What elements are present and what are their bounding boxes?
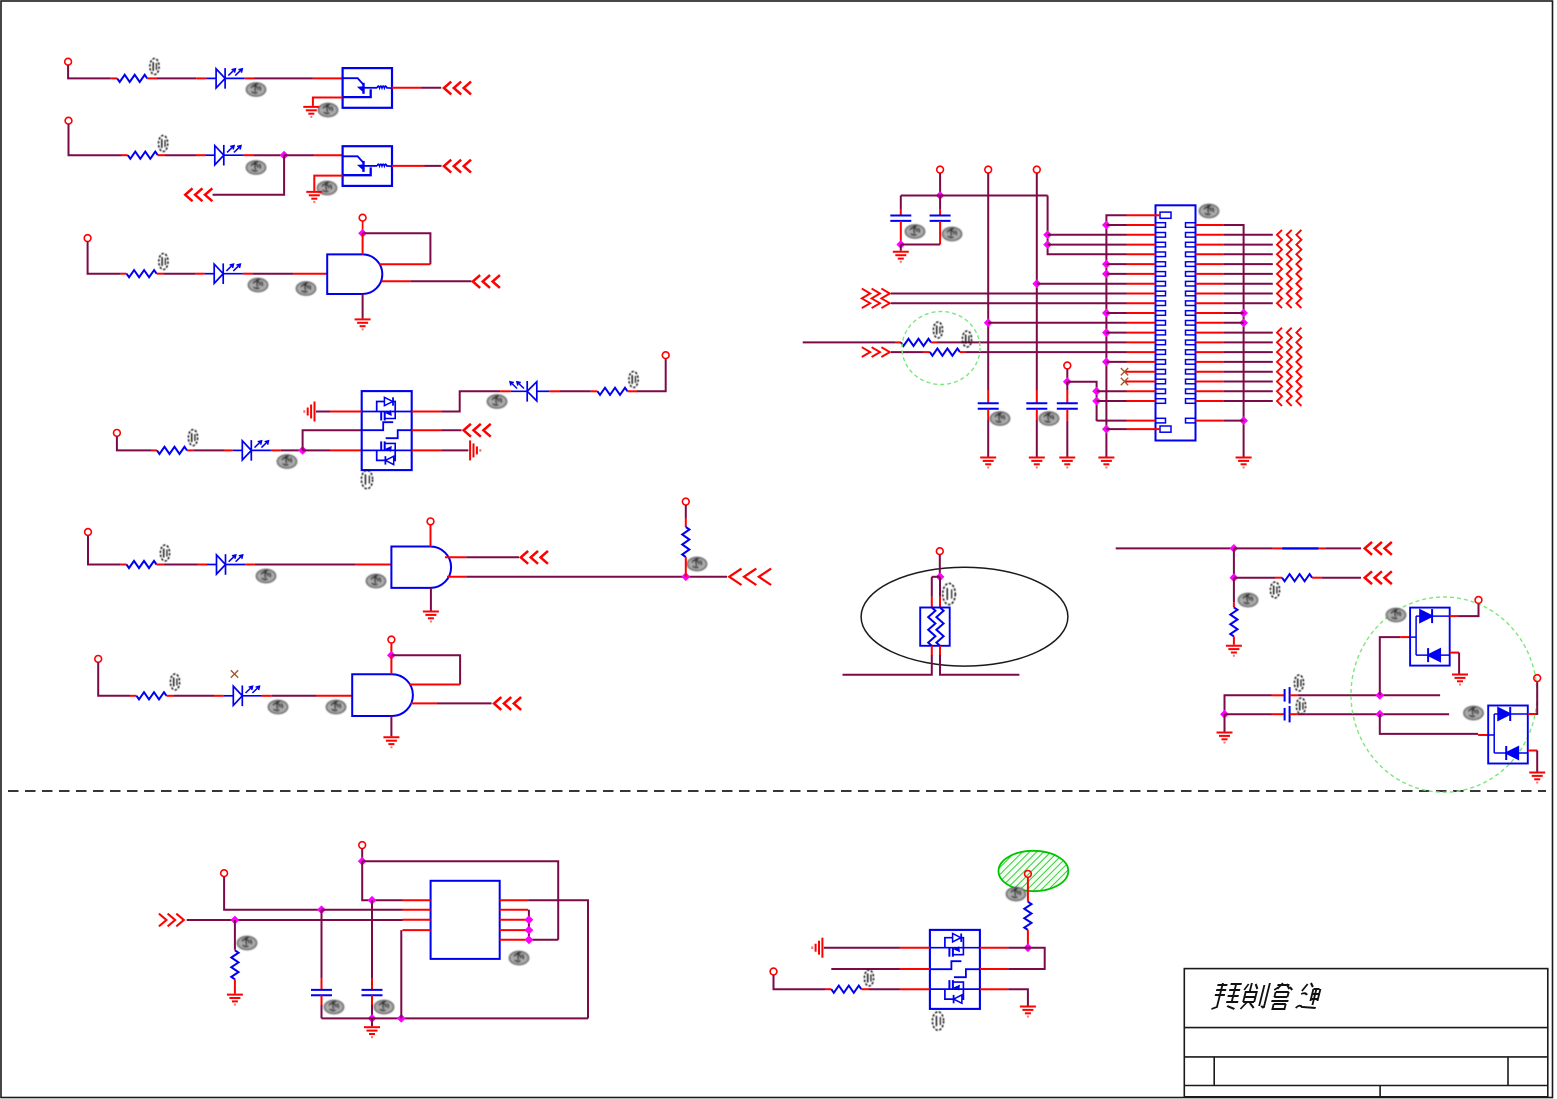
wire bbox=[174, 695, 214, 697]
pin lead bbox=[121, 273, 127, 275]
wire bbox=[157, 77, 196, 79]
resistor pack RP1 body bbox=[920, 608, 950, 646]
LED D2 bbox=[205, 145, 243, 166]
pin lead bbox=[549, 390, 560, 392]
pin lead bbox=[1036, 409, 1038, 420]
junction node bbox=[387, 651, 396, 660]
wire right vertical bus bbox=[1224, 225, 1244, 457]
junction node bbox=[936, 572, 945, 581]
dual diode pack D8 bbox=[1410, 608, 1450, 666]
wire left vertical bus bbox=[1106, 215, 1126, 456]
dual MOSFET Q2 bbox=[930, 930, 980, 1009]
wire to off-page bbox=[411, 280, 472, 282]
pin lead bbox=[245, 564, 255, 566]
off-page zigzag arrows group1 bbox=[1277, 230, 1301, 308]
pin lead bbox=[1233, 636, 1235, 644]
wire C5 net bbox=[1067, 382, 1096, 421]
pin lead bbox=[1066, 390, 1068, 403]
pin lead bbox=[262, 695, 272, 697]
power terminal P13 bbox=[985, 166, 992, 173]
wire row k17 bbox=[1097, 390, 1127, 392]
value label R4 bbox=[188, 430, 197, 446]
wire bbox=[194, 449, 224, 451]
wire cap net top bbox=[1225, 695, 1272, 714]
ground bbox=[383, 737, 399, 747]
power terminal P4 bbox=[359, 214, 366, 221]
junction node bbox=[1043, 240, 1052, 249]
ground bbox=[980, 458, 996, 468]
pin lead bbox=[1027, 877, 1029, 901]
IC right pin leads bbox=[500, 900, 529, 940]
designator C2 bbox=[942, 227, 961, 240]
junction node bbox=[1092, 397, 1101, 406]
wire row k2 bbox=[1048, 244, 1127, 246]
pin lead bbox=[157, 564, 165, 566]
wire bbox=[253, 273, 294, 275]
pin lead bbox=[293, 273, 327, 275]
wire to off-page bbox=[466, 576, 727, 578]
pin lead bbox=[987, 409, 989, 420]
ground bbox=[364, 1027, 380, 1037]
wire bbox=[1233, 578, 1235, 603]
wire bbox=[371, 1005, 373, 1018]
pin lead bbox=[243, 154, 253, 156]
wire bbox=[303, 449, 330, 451]
ground bbox=[1452, 675, 1468, 685]
pin lead bbox=[628, 390, 638, 392]
IC left pin leads bbox=[403, 900, 431, 930]
ground bbox=[893, 252, 909, 262]
power terminal P1 bbox=[65, 58, 72, 65]
feedback loop wire bbox=[391, 655, 460, 684]
pin lead bbox=[412, 449, 442, 451]
pin lead bbox=[923, 351, 930, 353]
designator R7 bbox=[687, 557, 706, 570]
wire bbox=[900, 245, 902, 251]
designator D7 bbox=[268, 700, 287, 713]
ground bbox=[1029, 458, 1045, 468]
junction node bbox=[1043, 230, 1052, 239]
connector CN1 pin contacts bbox=[1156, 212, 1196, 432]
wire to pack2 bbox=[1380, 714, 1478, 734]
highlight ellipse (black) bbox=[861, 567, 1068, 666]
junction node bbox=[1102, 260, 1111, 269]
resistor R10 bbox=[930, 349, 960, 356]
ground pin wire bbox=[430, 588, 432, 611]
designator R14 bbox=[1006, 887, 1025, 900]
wire to junction bbox=[253, 154, 284, 156]
pin lead bbox=[321, 995, 323, 1005]
power pin bbox=[430, 525, 432, 547]
pin lead bbox=[825, 988, 831, 990]
pin lead bbox=[130, 695, 137, 697]
capacitor C7 bbox=[1285, 706, 1290, 722]
pin lead bbox=[234, 949, 236, 950]
pin lead bbox=[980, 988, 1008, 990]
capacitor C2 bbox=[930, 216, 951, 221]
wire branch bbox=[932, 576, 940, 578]
junction node bbox=[1102, 328, 1111, 337]
LED D5 bbox=[510, 381, 549, 402]
capacitor C4 bbox=[1026, 403, 1047, 408]
wire bbox=[284, 154, 314, 156]
pin lead bbox=[939, 597, 941, 608]
power terminal P5 bbox=[114, 430, 121, 437]
designator U2 bbox=[317, 181, 336, 194]
LED D3 bbox=[205, 263, 243, 284]
capacitor C1 bbox=[890, 216, 911, 221]
pin lead bbox=[371, 978, 373, 990]
ground (rotated) bbox=[812, 938, 822, 958]
resistor R7 bbox=[682, 527, 689, 557]
no-connect X k15 bbox=[1121, 368, 1128, 375]
off-page connector <<< row6 bbox=[494, 698, 520, 709]
wire bbox=[272, 695, 316, 697]
power terminal P17 bbox=[1475, 597, 1482, 604]
junction node bbox=[1102, 425, 1111, 434]
pin lead bbox=[1272, 694, 1285, 696]
junction node bbox=[1063, 377, 1072, 386]
wire row k7 bbox=[891, 293, 1127, 295]
pin lead bbox=[1275, 577, 1282, 579]
ground bbox=[423, 612, 439, 622]
designator D8 bbox=[1386, 608, 1405, 621]
designator D9 bbox=[1464, 706, 1483, 719]
designator Q2 bbox=[932, 1012, 943, 1030]
designator U3 bbox=[296, 282, 315, 295]
wire bbox=[164, 564, 198, 566]
ferrite bead FB1 bbox=[1282, 547, 1319, 549]
junction node bbox=[1220, 710, 1229, 719]
designator D3 bbox=[248, 278, 267, 291]
connector CN1 body bbox=[1156, 205, 1196, 440]
wire from P3 bbox=[88, 242, 121, 274]
power terminal P10 bbox=[95, 656, 102, 663]
power terminal P19 bbox=[221, 870, 228, 877]
wire row L4 to rail bbox=[400, 930, 402, 1018]
no-connect X k16 bbox=[1121, 378, 1128, 385]
LED D1 bbox=[207, 68, 245, 89]
pin lead bbox=[931, 597, 933, 608]
pin lead bbox=[313, 77, 343, 79]
pin lead bbox=[939, 221, 941, 245]
off-page connector <<< row4 bbox=[464, 425, 490, 436]
junction node bbox=[358, 229, 367, 238]
junction node bbox=[936, 191, 945, 200]
ground bbox=[303, 107, 319, 117]
junction node bbox=[1024, 943, 1033, 952]
value label R1 bbox=[150, 59, 159, 75]
pin lead bbox=[1400, 636, 1410, 638]
connector left pin leads bbox=[1127, 215, 1161, 429]
power terminal P20 bbox=[359, 842, 366, 849]
AND gate U5 bbox=[352, 674, 413, 716]
wire ground rail bbox=[322, 1017, 589, 1019]
off-page connector <<< net1 bbox=[1365, 543, 1391, 554]
no-connect lead k15 bbox=[1125, 371, 1127, 373]
off-page connector <<< row3 bbox=[473, 276, 499, 287]
value label R15 bbox=[864, 970, 873, 986]
power loop wire bbox=[362, 861, 558, 940]
ground bbox=[1020, 1007, 1036, 1017]
wire row k13b bbox=[966, 351, 1127, 353]
resistor R12 bbox=[1230, 607, 1237, 636]
wire row k8 bbox=[891, 302, 1127, 304]
wire bbox=[1066, 421, 1068, 457]
pin lead bbox=[198, 564, 208, 566]
value label R10 bbox=[962, 331, 971, 347]
ground (rotated) bbox=[470, 440, 480, 460]
pin lead bbox=[1450, 652, 1459, 654]
pin lead bbox=[187, 449, 194, 451]
pin lead bbox=[685, 557, 687, 577]
wire from P19 bbox=[224, 877, 321, 910]
LED D6 bbox=[207, 554, 245, 575]
branch wire bbox=[213, 155, 285, 195]
pin lead bbox=[234, 979, 236, 993]
junction node bbox=[525, 935, 534, 944]
junction node bbox=[1102, 309, 1111, 318]
wire row k18 bbox=[1097, 400, 1127, 402]
company name 緯創資通 (drawn strokes) bbox=[1211, 983, 1321, 1009]
wire from >>> bbox=[187, 919, 403, 921]
wire bbox=[1326, 547, 1361, 549]
junction node bbox=[525, 926, 534, 935]
power pin bbox=[390, 655, 392, 674]
resistor R11 bbox=[1282, 574, 1312, 581]
designator CN1 bbox=[1199, 204, 1218, 217]
junction node bbox=[368, 1014, 377, 1023]
designator U5 bbox=[326, 700, 345, 713]
junction node bbox=[298, 446, 307, 455]
resistor RP1b bbox=[936, 608, 943, 646]
wire to off-page bbox=[466, 556, 519, 558]
wires bus-B rows bbox=[1106, 225, 1126, 362]
resistor RP1a bbox=[928, 608, 935, 646]
power terminal P11 bbox=[388, 636, 395, 643]
junction node bbox=[280, 151, 289, 160]
pin lead bbox=[122, 154, 128, 156]
ground bbox=[1217, 733, 1233, 743]
pin lead bbox=[960, 351, 966, 353]
pin lead bbox=[1066, 409, 1068, 421]
pin lead bbox=[900, 968, 930, 970]
pin lead bbox=[195, 273, 205, 275]
power terminal P16 bbox=[936, 548, 943, 555]
wire to terminal bbox=[1535, 682, 1537, 715]
designator D4 bbox=[277, 455, 296, 468]
capacitor C3 bbox=[978, 403, 999, 408]
wire from P7 bbox=[88, 535, 121, 564]
wire bottom rail bbox=[901, 244, 940, 246]
value label R5 bbox=[629, 372, 638, 388]
pin lead bbox=[224, 449, 233, 451]
power terminal P2 bbox=[65, 117, 72, 124]
power lead bbox=[390, 643, 392, 655]
wire bbox=[234, 920, 236, 949]
off-page connector <<< net2 bbox=[1365, 572, 1391, 583]
pin lead bbox=[447, 576, 466, 578]
pin lead bbox=[1478, 734, 1488, 736]
designator D1 bbox=[246, 83, 265, 96]
wire bbox=[685, 505, 687, 518]
wire net1 bbox=[1116, 547, 1234, 549]
wire to ground bbox=[1536, 751, 1538, 772]
wire bbox=[1234, 547, 1273, 549]
wire from P5 bbox=[117, 436, 151, 450]
wire bbox=[1225, 713, 1272, 715]
pin lead bbox=[900, 221, 902, 245]
designator Q1 bbox=[361, 470, 372, 488]
junction node bbox=[1375, 691, 1384, 700]
pin lead bbox=[392, 165, 425, 167]
wire row L2 bbox=[322, 909, 403, 911]
resistor R1 bbox=[117, 75, 147, 82]
green highlight ellipse bbox=[902, 312, 980, 385]
designator U1 bbox=[318, 103, 337, 116]
off-page zigzag arrows >> (2 rows) bbox=[862, 289, 890, 309]
pin lead bbox=[412, 411, 442, 413]
pin lead bbox=[382, 280, 411, 282]
pin lead bbox=[1036, 390, 1038, 403]
green hatched highlight ellipse bbox=[999, 851, 1069, 891]
off-page connector <<< row2 bbox=[444, 161, 470, 172]
pin lead bbox=[157, 273, 164, 275]
wire top rail bbox=[901, 195, 1048, 197]
pin lead bbox=[380, 263, 431, 265]
wire to off-page bbox=[437, 702, 492, 704]
wire cap C8 lead bbox=[321, 910, 323, 979]
optocoupler U2 bbox=[343, 146, 392, 186]
wire bbox=[987, 420, 989, 457]
junction node bbox=[1239, 309, 1248, 318]
pin lead bbox=[167, 695, 175, 697]
junction node bbox=[681, 572, 690, 581]
pin lead bbox=[330, 411, 362, 413]
pin lead bbox=[245, 77, 255, 79]
off-page connector <<< row5a bbox=[521, 552, 547, 563]
pin lead bbox=[243, 273, 253, 275]
pin lead to ground bbox=[314, 176, 342, 191]
pin lead bbox=[939, 209, 941, 216]
junction node bbox=[1239, 416, 1248, 425]
pin lead bbox=[1312, 577, 1322, 579]
wire from P22 bbox=[774, 975, 826, 989]
power lead bbox=[362, 221, 364, 233]
junction node bbox=[317, 905, 326, 914]
designator C4 bbox=[1039, 412, 1058, 425]
ground bbox=[1236, 458, 1252, 468]
wire bbox=[1233, 548, 1235, 577]
wires bus-C rows bbox=[1224, 313, 1244, 421]
wire bbox=[824, 947, 900, 949]
power terminal P12 bbox=[937, 166, 944, 173]
wire row k13 bbox=[891, 351, 923, 353]
pin lead bbox=[392, 87, 422, 89]
resistor R13 bbox=[231, 950, 238, 979]
resistor R2 bbox=[128, 152, 158, 159]
capacitor C5 bbox=[1057, 403, 1078, 408]
green highlight circle bbox=[1351, 597, 1537, 792]
wire bbox=[441, 429, 461, 431]
pin lead bbox=[445, 556, 466, 558]
pin lead bbox=[411, 702, 437, 704]
designator D2 bbox=[246, 161, 265, 174]
IC U6 body bbox=[431, 881, 500, 959]
net stub bbox=[831, 968, 899, 970]
wire vertical bus VB2 bbox=[987, 173, 989, 390]
power terminal P14 bbox=[1033, 166, 1040, 173]
net stub left bbox=[843, 655, 932, 675]
power lead bbox=[361, 849, 363, 862]
pin lead bbox=[1528, 750, 1537, 752]
dual diode pack D9 bbox=[1488, 706, 1528, 764]
value label C6 bbox=[1294, 675, 1303, 691]
junction node bbox=[1239, 318, 1248, 327]
off-page connector >>> bbox=[160, 914, 184, 925]
junction node bbox=[231, 916, 240, 925]
wire row k12 bbox=[803, 341, 895, 343]
pin lead bbox=[900, 988, 930, 990]
pin lead bbox=[980, 947, 1008, 949]
pin lead bbox=[895, 341, 901, 343]
wire row k6 bbox=[1037, 283, 1127, 285]
pin lead bbox=[121, 564, 127, 566]
off-page connector <<< row1 bbox=[444, 82, 470, 93]
junction node bbox=[1102, 221, 1111, 230]
wire bbox=[1036, 420, 1038, 457]
wire bbox=[321, 1005, 323, 1018]
ground pin wire bbox=[362, 294, 364, 318]
wire row k1 bbox=[1048, 234, 1127, 236]
feedback loop wire bbox=[363, 233, 431, 264]
pin lead bbox=[147, 77, 157, 79]
junction node bbox=[525, 915, 534, 924]
resistor R6 bbox=[127, 561, 157, 568]
value label R8 bbox=[170, 674, 179, 690]
wire bbox=[441, 391, 500, 411]
wire bbox=[1234, 577, 1275, 579]
junction node bbox=[1092, 387, 1101, 396]
wire cap lead bbox=[900, 196, 902, 210]
ground pin wire bbox=[390, 716, 392, 736]
pin lead bbox=[1027, 930, 1029, 948]
off-page connector <<< row2 branch bbox=[185, 189, 211, 200]
dashed section separator bbox=[8, 790, 1546, 792]
resistor R4 bbox=[157, 447, 187, 454]
power terminal P9 bbox=[682, 498, 689, 505]
power terminal P6 bbox=[662, 352, 669, 359]
junction node bbox=[397, 1014, 406, 1023]
wire bbox=[869, 988, 900, 990]
wire bbox=[931, 577, 933, 597]
power terminal P8 bbox=[427, 518, 434, 525]
ground bbox=[1529, 773, 1545, 783]
capacitor C9 bbox=[362, 990, 383, 995]
value label R9 bbox=[933, 322, 942, 338]
ground bbox=[227, 995, 243, 1005]
AND gate U3 bbox=[327, 254, 382, 294]
capacitor C6 bbox=[1285, 687, 1290, 703]
pin lead bbox=[900, 947, 930, 949]
designator U4 bbox=[366, 574, 385, 587]
pin lead bbox=[1233, 602, 1235, 607]
junction node bbox=[1102, 358, 1111, 367]
LED D4 bbox=[233, 440, 271, 461]
designator C9 bbox=[374, 1000, 393, 1013]
wire cap lead bbox=[939, 196, 941, 210]
designator C3 bbox=[990, 412, 1009, 425]
